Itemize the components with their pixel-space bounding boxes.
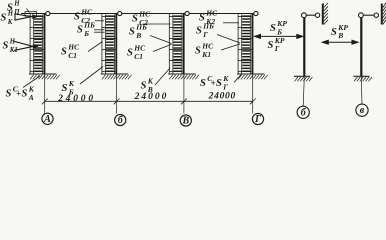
svg-text:S: S [270, 23, 276, 34]
svg-text:С1: С1 [134, 52, 143, 61]
svg-text:+: + [211, 78, 216, 88]
node circle б [297, 106, 309, 118]
axis drop line G [252, 74, 254, 114]
fixed support б [294, 76, 312, 81]
svg-text:S: S [74, 12, 80, 23]
link pins [361, 14, 376, 16]
svg-text:В: В [337, 31, 343, 40]
svg-text:24000: 24000 [134, 92, 169, 102]
axis drop line B [116, 74, 118, 114]
svg-text:S: S [200, 78, 206, 89]
svg-text:S: S [22, 89, 28, 100]
svg-text:Г: Г [254, 114, 262, 125]
svg-text:S: S [141, 81, 147, 92]
node G circle [252, 113, 263, 124]
svg-text:С1: С1 [68, 51, 77, 60]
svg-text:А: А [28, 93, 34, 102]
svg-text:S: S [216, 78, 222, 89]
link pins [304, 14, 317, 16]
column G [252, 13, 254, 74]
svg-text:S: S [331, 27, 337, 38]
crane force arrow S_V^KR [322, 40, 358, 44]
pin at top of column G [254, 11, 258, 15]
svg-text:Г: Г [274, 44, 280, 53]
svg-text:S: S [127, 48, 133, 59]
fixed support under column A [29, 74, 60, 79]
lattice column strip V [169, 13, 183, 74]
svg-text:А: А [43, 114, 51, 125]
lattice column strip A [30, 13, 43, 74]
section column б [303, 17, 305, 76]
rigid wall anchor [381, 4, 383, 25]
fixed support under column B [101, 74, 132, 79]
svg-text:S: S [3, 41, 9, 52]
svg-text:Б: Б [83, 29, 89, 38]
svg-text:S: S [6, 89, 12, 100]
node circle в [356, 104, 368, 116]
dimension line [45, 100, 254, 102]
lattice column strip G [238, 13, 252, 74]
fixed support under column G [237, 74, 268, 79]
pin at top of column V [185, 11, 189, 15]
svg-text:+: + [16, 89, 21, 99]
svg-text:К1: К1 [201, 50, 211, 59]
fixed support в [354, 76, 372, 81]
node A circle [42, 113, 53, 124]
rigid wall anchor [322, 4, 324, 25]
dimension slash tick V [181, 99, 187, 105]
svg-text:24000: 24000 [208, 91, 236, 101]
svg-text:Г: Г [222, 82, 228, 91]
svg-text:S: S [77, 25, 83, 36]
column V [183, 13, 185, 74]
svg-text:S: S [196, 26, 202, 37]
pin at top of column A [46, 11, 50, 15]
svg-text:S: S [129, 27, 135, 38]
pin at top of column B [118, 11, 122, 15]
crane force arrow S_B^KR / S_G^KR [255, 34, 303, 38]
svg-text:S: S [1, 13, 7, 24]
svg-text:S: S [268, 40, 274, 51]
dimension slash tick B [114, 99, 120, 105]
svg-text:S: S [62, 83, 68, 94]
svg-text:В: В [181, 116, 189, 127]
svg-text:Н: Н [7, 11, 14, 18]
dimension slash tick G [250, 99, 256, 105]
box at top of lattice strip A [25, 12, 37, 17]
node V circle [180, 115, 191, 126]
svg-text:24000: 24000 [57, 94, 96, 104]
dimension slash tick A [42, 99, 48, 105]
svg-text:К: К [7, 19, 13, 26]
node B circle [115, 114, 126, 125]
svg-text:в: в [360, 105, 365, 116]
svg-text:Н: Н [13, 1, 20, 8]
column A [44, 13, 46, 74]
fixed support under column V [168, 74, 199, 79]
svg-text:S: S [61, 47, 67, 58]
svg-text:В: В [135, 31, 141, 40]
column B [115, 13, 117, 74]
axis drop line V [183, 74, 185, 114]
top chord line [21, 13, 253, 15]
lattice column strip B [102, 13, 116, 74]
svg-text:S: S [195, 46, 201, 57]
section column в [360, 17, 362, 76]
axis drop line A [44, 74, 46, 114]
svg-text:Г: Г [202, 30, 208, 39]
